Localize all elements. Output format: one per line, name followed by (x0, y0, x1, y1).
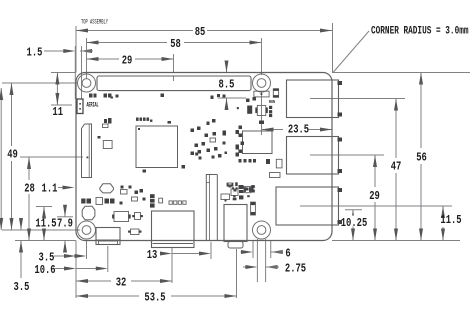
svg-text:10.6: 10.6 (34, 263, 55, 277)
svg-text:8.5: 8.5 (219, 77, 235, 91)
svg-text:AERIAL: AERIAL (87, 102, 99, 109)
svg-text:32: 32 (116, 275, 127, 289)
svg-text:29: 29 (369, 189, 380, 203)
svg-text:CORNER RADIUS = 3.0mm: CORNER RADIUS = 3.0mm (371, 26, 469, 38)
svg-text:85: 85 (195, 25, 206, 39)
svg-text:RUN: RUN (269, 99, 275, 105)
svg-text:23.5: 23.5 (288, 122, 309, 136)
svg-text:1.1: 1.1 (42, 181, 58, 195)
svg-text:28: 28 (24, 181, 35, 195)
svg-text:7.9: 7.9 (57, 216, 73, 230)
svg-text:10.25: 10.25 (341, 216, 368, 230)
svg-text:53.5: 53.5 (144, 290, 165, 304)
svg-text:11.5: 11.5 (35, 216, 56, 230)
svg-text:56: 56 (416, 150, 427, 164)
svg-text:11.5: 11.5 (440, 213, 461, 227)
svg-text:2.75: 2.75 (285, 261, 306, 275)
svg-text:3.5: 3.5 (14, 280, 30, 294)
svg-text:1.5: 1.5 (27, 45, 43, 59)
svg-text:6: 6 (285, 246, 290, 260)
svg-text:47: 47 (391, 159, 402, 173)
svg-text:58: 58 (170, 37, 181, 51)
svg-text:29: 29 (122, 53, 133, 67)
svg-text:13: 13 (147, 248, 158, 262)
svg-text:11: 11 (52, 105, 63, 119)
svg-text:49: 49 (7, 147, 18, 161)
svg-text:TOP ASSEMBLY: TOP ASSEMBLY (81, 19, 108, 26)
